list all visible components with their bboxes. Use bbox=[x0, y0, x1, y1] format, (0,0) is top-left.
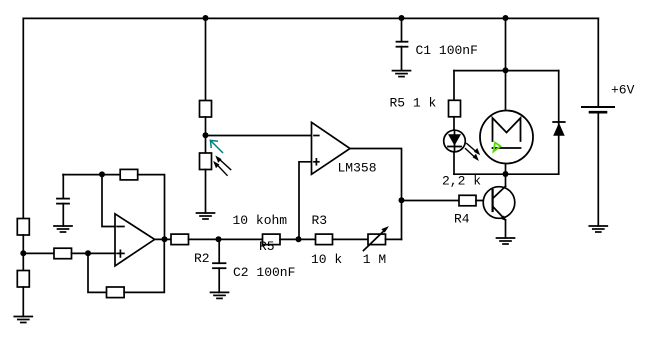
svg-text:R3: R3 bbox=[312, 213, 328, 228]
resistor U1 bottom feedback bbox=[107, 287, 125, 298]
svg-text:+6V: +6V bbox=[611, 83, 635, 98]
wire R3 to pot bbox=[333, 238, 369, 240]
wire R5 to R3 bbox=[280, 238, 316, 240]
wire U2 output bbox=[350, 149, 402, 240]
wire branch bottom bbox=[454, 173, 559, 175]
wire top feedback to output bbox=[138, 175, 165, 240]
wire U1 minus node bbox=[63, 174, 120, 176]
wire bbox=[205, 170, 207, 214]
op-amp U2 LM358 bbox=[312, 122, 351, 174]
wire branch top bbox=[454, 70, 559, 72]
capacitor C1 bbox=[397, 41, 408, 43]
resistor R5 1k bbox=[449, 100, 461, 117]
wire bbox=[72, 252, 116, 254]
node output/base junction bbox=[399, 197, 405, 203]
wire motor feed drop bbox=[505, 18, 507, 70]
wire bbox=[22, 235, 24, 271]
wire emitter bbox=[505, 220, 507, 238]
svg-text:C1 100nF: C1 100nF bbox=[416, 43, 478, 58]
wire base bbox=[476, 200, 493, 202]
resistor R5 10kohm bbox=[263, 234, 281, 245]
ground emitter bbox=[497, 238, 515, 244]
diode D2 flyback bbox=[553, 122, 565, 136]
wire bbox=[597, 112, 599, 226]
ground battery bbox=[589, 226, 607, 232]
node plus feedback tap bbox=[296, 236, 302, 242]
svg-text:C2 100nF: C2 100nF bbox=[233, 265, 295, 280]
wire base feed bbox=[402, 200, 460, 202]
wire minus into op-amp bbox=[102, 175, 115, 227]
potentiometer 1M bbox=[364, 226, 389, 250]
left divider: resistor top bbox=[17, 219, 29, 236]
wire divider drop bbox=[205, 18, 207, 100]
node C2 tap bbox=[216, 236, 222, 242]
LED emission arrows bbox=[466, 144, 481, 162]
node branch bottom bbox=[503, 171, 509, 177]
node U1 output bbox=[162, 236, 168, 242]
resistor bottom bbox=[17, 271, 29, 288]
motor M1 bbox=[480, 111, 533, 164]
resistor upper divider bbox=[200, 101, 212, 118]
node top junction at x=505.5 bbox=[503, 15, 509, 21]
LED D1 bbox=[444, 130, 466, 152]
wire tap to op-amp bbox=[206, 135, 312, 137]
wire bbox=[205, 117, 207, 153]
wire left rail bbox=[22, 18, 24, 218]
resistor R3 bbox=[316, 234, 333, 245]
wire diode branch bbox=[558, 71, 560, 175]
wire R2 to R5 bbox=[189, 238, 263, 240]
ground C1 bbox=[393, 71, 411, 77]
wire bbox=[453, 117, 455, 174]
wire top rail bbox=[23, 17, 598, 19]
svg-text:2,2 k: 2,2 k bbox=[442, 173, 481, 188]
node divider tap bbox=[203, 132, 209, 138]
wire C1 drop bbox=[401, 18, 403, 41]
svg-text:10 kohm: 10 kohm bbox=[233, 213, 288, 228]
green cursor mark bbox=[493, 143, 500, 152]
ground C2 bbox=[211, 292, 229, 298]
node top junction at x=401.5 bbox=[399, 15, 405, 21]
light arrows onto LDR bbox=[213, 156, 231, 176]
wire bbox=[22, 287, 24, 317]
svg-text:1 M: 1 M bbox=[363, 252, 386, 267]
capacitor C2 bbox=[213, 239, 226, 292]
wire LED branch bbox=[453, 71, 455, 101]
node top junction at x=205.5 bbox=[203, 15, 209, 21]
wire U1 plus row bbox=[23, 252, 54, 254]
svg-text:R5 1 k: R5 1 k bbox=[390, 96, 437, 111]
wire plus to bottom feedback bbox=[88, 253, 107, 292]
op-amp U1 bbox=[115, 214, 155, 266]
ground cap bbox=[54, 226, 72, 232]
wire U1 output bbox=[155, 238, 171, 240]
teal cursor arrow bbox=[210, 140, 222, 152]
wire bottom feedback to output bbox=[124, 239, 164, 292]
ground LDR bbox=[197, 213, 215, 219]
node divider tap left bbox=[20, 250, 26, 256]
node minus junction bbox=[99, 171, 105, 177]
wire collector bbox=[505, 174, 507, 186]
transistor Q1 bbox=[483, 186, 515, 221]
svg-text:R2: R2 bbox=[194, 251, 210, 266]
capacitor input filter bbox=[57, 175, 69, 226]
resistor R2 bbox=[171, 234, 189, 245]
resistor R4 bbox=[459, 195, 476, 206]
node plus junction bbox=[85, 250, 91, 256]
svg-text:LM358: LM358 bbox=[338, 161, 377, 176]
resistor U1 top feedback bbox=[120, 169, 138, 180]
svg-text:R5: R5 bbox=[259, 239, 275, 254]
wire pot to output bbox=[386, 238, 402, 240]
photoresistor LDR bbox=[200, 153, 212, 170]
resistor plus input bbox=[54, 248, 72, 259]
wire U2 plus input bbox=[299, 162, 312, 240]
wire right rail bbox=[597, 18, 599, 107]
svg-text:10 k: 10 k bbox=[311, 252, 342, 267]
ground divider bbox=[14, 317, 32, 323]
wire motor branch bbox=[505, 71, 507, 111]
battery +6V bbox=[582, 107, 614, 112]
svg-text:R4: R4 bbox=[454, 212, 470, 227]
node branch top bbox=[503, 67, 509, 73]
